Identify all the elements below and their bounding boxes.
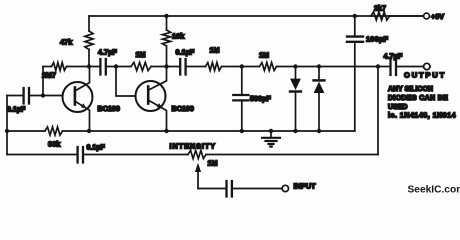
diode D2 [314, 67, 325, 132]
wire output node drop [377, 67, 379, 155]
svg-text:1M: 1M [259, 51, 269, 60]
wire cap to 1M second [187, 66, 206, 68]
capacitor C 0.1uF bottom [78, 147, 83, 163]
svg-text:33k: 33k [48, 140, 61, 149]
svg-text:BC109: BC109 [98, 104, 120, 113]
terminal +9V [424, 13, 430, 19]
terminal OUTPUT [424, 63, 430, 69]
wire 1M to 10k node [151, 66, 179, 68]
wire 10k branch top [166, 16, 168, 30]
resistor R 1M second [206, 63, 222, 71]
wire 47k branch top [88, 16, 90, 31]
svg-text:BC109: BC109 [172, 104, 194, 113]
wire to 500pF node and 1M third [222, 66, 260, 68]
svg-text:INPUT: INPUT [294, 182, 317, 191]
capacitor C 4.7uF output [391, 60, 397, 76]
wire bottom row to pot [84, 154, 188, 156]
svg-text:1M: 1M [208, 159, 218, 168]
wire 33k row left [7, 130, 45, 132]
wire signal row to output node [277, 66, 390, 68]
transistor Q1 BC109 [63, 67, 93, 132]
capacitor C 0.1uF input Q1 [24, 88, 29, 104]
wire emitter ground row [63, 130, 355, 132]
resistor R 1M third [260, 63, 277, 71]
svg-text:1M: 1M [210, 46, 220, 55]
wire wiper to input cap [198, 188, 225, 190]
wire 2M7 left drop to base node [42, 67, 44, 96]
wire left rail [6, 96, 8, 155]
svg-text:INTENSITY: INTENSITY [170, 142, 217, 151]
svg-text:+9V: +9V [431, 12, 444, 21]
capacitor C 100uF decoupling [354, 16, 356, 35]
svg-text:100μF: 100μF [366, 35, 389, 44]
resistor R 10k [162, 30, 170, 46]
svg-text:2k7: 2k7 [374, 4, 386, 13]
svg-text:0.1μF: 0.1μF [7, 107, 26, 114]
svg-text:SeekIC.com: SeekIC.com [408, 185, 460, 196]
wire bottom row left of 0.1uF [7, 154, 77, 156]
capacitor C 500pF [241, 67, 243, 94]
potentiometer R 1M INTENSITY [188, 150, 206, 158]
capacitor C 4.7uF coupling [100, 59, 105, 75]
resistor R 2M7 [52, 63, 67, 71]
svg-text:1M: 1M [136, 50, 146, 59]
svg-text:0.1μF: 0.1μF [176, 48, 195, 57]
resistor R 1M first [131, 62, 151, 70]
svg-text:47k: 47k [60, 38, 73, 47]
svg-text:OUTPUT: OUTPUT [404, 71, 446, 80]
wire signal row segment left of 2M7 [43, 66, 52, 68]
capacitor C 0.1uF interstage [180, 59, 185, 75]
wire Q2 base tap [116, 67, 136, 97]
svg-text:ie. 1N4148, 1N914: ie. 1N4148, 1N914 [388, 113, 456, 120]
wire cap to OUTPUT terminal [397, 66, 423, 68]
wire cap to Q2 base node [107, 66, 131, 68]
svg-text:DIODES CAN BE: DIODES CAN BE [388, 95, 448, 102]
svg-text:10k: 10k [172, 32, 185, 41]
resistor R 33k [45, 127, 63, 135]
wire Q1 base row [7, 95, 63, 97]
svg-text:ANY SILICON: ANY SILICON [388, 86, 433, 93]
terminal INPUT [282, 185, 288, 191]
svg-text:USED: USED [388, 104, 407, 111]
svg-text:0.1μF: 0.1μF [87, 145, 106, 152]
wire 47k branch bottom [88, 50, 90, 67]
svg-text:500pF: 500pF [250, 94, 271, 103]
diode D1 [290, 67, 301, 132]
wire 2k7 to +9V terminal [390, 15, 424, 17]
ground symbol [262, 131, 280, 147]
transistor Q2 BC109 [136, 67, 167, 132]
note text silicon diodes [388, 86, 456, 120]
wire 10k branch bottom [166, 46, 168, 67]
capacitor C input coupling [227, 181, 232, 197]
resistor R 47k [85, 31, 93, 50]
svg-text:2M7: 2M7 [42, 71, 56, 80]
svg-text:4.7μF: 4.7μF [384, 52, 403, 61]
wire pot row to output drop [206, 154, 378, 156]
svg-text:4.7μF: 4.7μF [98, 48, 117, 57]
wire 2M7 to collector node [67, 66, 100, 68]
wire top supply rail [89, 15, 424, 17]
wiper arrow of potentiometer [195, 163, 201, 189]
wire cap to INPUT terminal [233, 188, 282, 190]
resistor R 2k7 [371, 12, 390, 20]
